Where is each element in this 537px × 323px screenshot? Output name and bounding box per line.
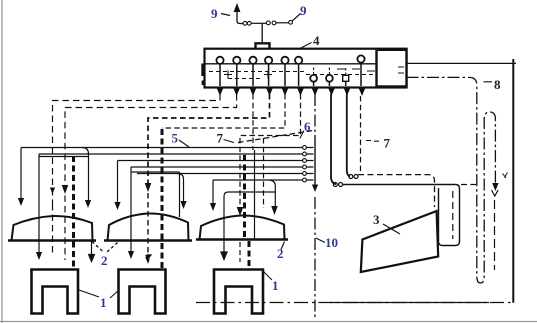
terminal box U4 tab [256,43,270,48]
branch down yoke1 right [88,154,90,204]
dashed run of 7 wire [238,131,313,143]
inner dash of pedal loop [452,191,454,239]
label 8 [484,81,493,83]
bold dashed wire L3 to yoke2 [148,94,270,184]
wire A solid from box to pedal loop [331,94,336,184]
box exit arrows [217,89,365,97]
terminal leads inside box [220,63,361,86]
dashed stub below yoke3 [239,242,241,262]
yoke 2 of assembly 1 [12,216,93,241]
bus B3 [118,160,314,162]
dashed-solid wire to yoke3 center [252,94,254,150]
wire solid from box right top [407,62,517,64]
fork 1 of assembly 1 [32,270,79,314]
wire up to 9 right [292,14,300,21]
dashed wire B to pedal [358,175,435,207]
small tick near loop [503,173,508,179]
connector 6 terminal circles [303,146,307,182]
switch chain circle c [266,21,270,25]
square contact K3 in box [343,75,349,81]
wire A to loop [343,185,460,246]
bus B5 [137,173,314,175]
terminal T6 [295,57,302,64]
heavy dashed bar to fork2 [161,129,164,268]
yoke bottom bold line 2 [104,239,192,242]
bus B1 [21,147,314,149]
terminal T7 right [357,55,364,62]
heavy arrow yoke3 [237,207,244,216]
terminal T5 [281,57,288,64]
svg-text:2: 2 [101,253,108,268]
heavy dashed bar to fork1 [72,156,75,268]
relay contact K1 in box [310,75,317,82]
heavy arrow yoke2 [145,183,152,192]
bus drop yoke1 through [38,154,40,255]
pedal 3 [361,211,438,272]
bus corner drop yoke3 right [269,180,275,209]
svg-text:3: 3 [373,212,380,227]
svg-text:4: 4 [313,33,320,48]
dashed wire 7 from box [360,96,362,175]
bus drop yoke3 left [212,180,214,207]
svg-text:1: 1 [272,278,279,293]
switch chain circle b [247,21,251,25]
loop leg tail dashes [494,200,496,270]
bus drop yoke2 left [117,161,119,207]
fork 1 of assembly 2 [119,270,166,314]
right border wire down [512,59,514,303]
terminal T2 [233,57,240,64]
dashed wire L2 from T2 [65,94,237,260]
contact pair A [333,183,337,187]
box left edge terminal lug [201,64,204,77]
bus drop yoke2 window [131,167,180,217]
datum line bottom dash-dot [196,302,513,304]
yoke bottom bold line 3 [196,238,288,241]
svg-text:9: 9 [300,3,307,18]
heavy dashed bar to fork3 [243,155,246,240]
svg-text:1: 1 [100,295,107,310]
terminal T4 [265,57,272,64]
datum solid stretch [330,302,489,304]
wire 10 dash-dot down [314,94,316,138]
hop on bus B1 [82,148,89,155]
svg-text:9: 9 [211,6,218,21]
bus B6 [213,179,314,181]
label 7 right [366,140,379,143]
fork2 entry arrow [221,240,227,260]
svg-text:2: 2 [277,246,284,261]
contact pair B [349,175,353,179]
svg-text:10: 10 [325,235,338,250]
svg-text:7: 7 [217,131,224,146]
switch chain circle e [289,20,293,24]
sub-box inside terminal box [377,50,407,87]
wire chain link 2 [276,22,289,24]
heavy arrow yoke1 [62,185,69,194]
bus corner drop yoke2 right [177,174,184,206]
internal bus line under terminals [205,63,377,65]
small arrow on L1 drop [50,188,55,195]
bus drop yoke1 left [20,148,22,202]
bus B2 [39,153,314,155]
bus B4 [131,166,314,168]
arrow symbol at chain start [234,3,241,12]
svg-text:8: 8 [494,77,501,92]
internal cross marks [224,67,404,79]
stubs above lower contacts [314,68,346,76]
page border artifact bottom [0,321,537,323]
switch chain circle d [272,21,276,25]
flow arrow on loop leg [492,183,498,191]
wire leader from 9 left [221,14,230,16]
terminal box U4 body [205,49,407,88]
dashed bracket of 7 [263,138,265,208]
yoke1 window top [39,156,89,158]
page border artifact left [1,0,3,323]
dashed wire L5 from T6 [240,94,301,205]
fork 1 of assembly 3 [214,270,263,314]
wire B solid from box [347,94,350,176]
yoke bottom bold line 1 [8,239,96,242]
yoke 2 of assembly 2 [108,213,189,240]
terminal T1 [216,57,223,64]
internal dashed wiring of box [209,72,374,79]
wire chain down to box tab [261,23,263,43]
terminal T3 [249,57,256,64]
switch chain circle a [243,21,247,25]
wire 8 dash-dot from box right [407,77,496,283]
dashed wire L1 from T1 [53,94,221,204]
stub below yoke1 right [89,241,95,262]
svg-text:5: 5 [172,131,179,146]
dash continuation to line 8 [461,184,476,186]
yoke3 window [224,192,275,239]
relay contact K2 in box [326,75,333,82]
dashed wire L4 from T5 [162,94,285,128]
yoke 2 of assembly 3 [200,215,285,239]
wire chain link 1 [251,22,266,24]
svg-text:7: 7 [384,136,391,151]
